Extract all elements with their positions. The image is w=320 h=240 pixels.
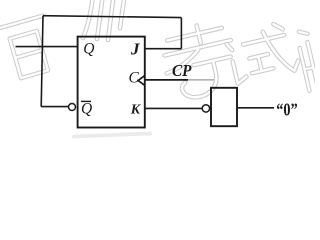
char bai	[0, 16, 58, 81]
svg-text:C: C	[129, 70, 140, 87]
svg-text:“0”: “0”	[276, 99, 298, 119]
char shi	[225, 21, 301, 85]
clock edge arrow at C pin	[138, 76, 144, 86]
svg-text:Q: Q	[81, 101, 92, 118]
wire CP input	[145, 79, 188, 81]
wire feedback right vertical	[180, 18, 182, 49]
bubble on inverter output	[202, 105, 209, 112]
wire K input	[145, 107, 202, 109]
svg-text:J: J	[130, 40, 140, 59]
char partial right edge	[296, 30, 320, 91]
flip-flop U1 body	[78, 37, 145, 128]
wire CP faint tail	[188, 79, 214, 81]
svg-text:CP: CP	[172, 61, 192, 80]
wire Q output	[16, 46, 78, 48]
wire J input	[145, 48, 182, 50]
char kao	[158, 19, 242, 103]
watermark	[0, 0, 320, 137]
svg-text:Q: Q	[83, 41, 94, 58]
wire Qbar to feedback	[41, 106, 68, 108]
wire feedback left vertical	[41, 16, 43, 107]
inverter U2 body	[211, 88, 237, 126]
svg-text:K: K	[130, 102, 142, 117]
bubble on Qbar output	[69, 104, 76, 111]
wire inverter input from "0"	[237, 107, 274, 109]
char chuan	[83, 0, 125, 40]
wire feedback top	[43, 16, 181, 18]
watermark bar under box	[74, 134, 150, 137]
overline of Qbar	[81, 100, 91, 102]
